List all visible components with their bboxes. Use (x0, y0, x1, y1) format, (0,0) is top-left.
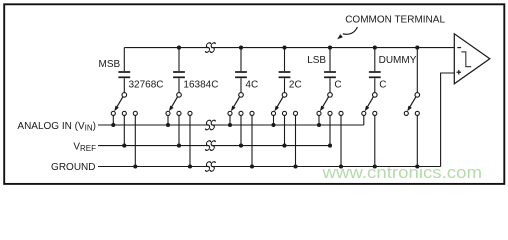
svg-text:ANALOG IN (VIN): ANALOG IN (VIN) (17, 121, 96, 133)
wire: common terminal rail (left segment) (124, 47, 207, 49)
junction: S2 to VREF rail (177, 144, 181, 148)
capacitor C1 (32768C) (118, 48, 130, 93)
switch S5 contact (ANALOG IN throw) (317, 111, 321, 115)
wire: S4 left contact to ANALOG IN (273, 115, 275, 125)
svg-text:C: C (334, 79, 341, 90)
capacitor C6 (DUMMY C) (369, 48, 381, 93)
switch S6 contact (ANALOG IN throw) (362, 111, 366, 115)
switch S5 contact (GROUND throw) (339, 111, 343, 115)
junction: C3 to rail (239, 46, 243, 50)
junction: C4 to rail (282, 46, 286, 50)
svg-text:DUMMY: DUMMY (379, 55, 417, 66)
switch S7 contact (GROUND throw) (415, 111, 419, 115)
wire: GROUND rail (left segment) (98, 166, 207, 168)
op-amp U1 (comparator) (454, 34, 490, 84)
capacitor C3 (4C) (235, 48, 247, 93)
node label: COMMON TERMINAL (337, 14, 445, 39)
switch S2 contact (GROUND throw) (188, 111, 192, 115)
junction: S4 to ANALOG IN rail (271, 123, 275, 127)
wire: common rail down to switch S7 pivot (416, 48, 418, 93)
junction: S5 to ANALOG IN rail (317, 123, 321, 127)
switch S2 wiper (pivot + arrow) (169, 93, 181, 112)
switch S1 contact (GROUND throw) (133, 111, 137, 115)
svg-text:16384C: 16384C (183, 79, 218, 90)
switch S7 wiper (pivot + arrow) (407, 93, 419, 112)
wire: common terminal rail (right segment, to comparator - input) (214, 47, 454, 49)
svg-text:MSB: MSB (99, 59, 121, 70)
svg-text:2C: 2C (289, 79, 302, 90)
wire: VREF rail turn-up to LSB switch middle contact (329, 115, 331, 145)
switch S6 wiper (pivot + arrow) (365, 93, 377, 112)
wire: comparator + input from GROUND rail (441, 73, 455, 167)
wire: S5 left contact to ANALOG IN (318, 115, 320, 125)
junction: S7 to GROUND rail (415, 164, 419, 168)
capacitor C5 (C) (324, 48, 336, 93)
wire: S5 middle contact stub to VREF turn-up (329, 114, 331, 117)
svg-text:C: C (379, 79, 386, 90)
break symbol (ANALOG IN rail) (205, 120, 216, 130)
break symbol (GROUND rail) (205, 162, 216, 172)
wire: S2 middle contact to VREF (178, 115, 180, 145)
junction: C5 to rail (328, 46, 332, 50)
junction: S3 to ANALOG IN rail (228, 123, 232, 127)
wire: S4 right contact to GROUND (295, 115, 297, 166)
break symbol (common terminal rail) (205, 43, 216, 53)
switch S4 contact (GROUND throw) (293, 111, 297, 115)
junction: S2 to GROUND rail (188, 164, 192, 168)
junction: S2 to ANALOG IN rail (166, 123, 170, 127)
switch S3 contact (ANALOG IN throw) (228, 111, 232, 115)
switch S3 contact (VREF throw) (239, 111, 243, 115)
switch S3 contact (GROUND throw) (250, 111, 254, 115)
junction: C2 to rail (177, 46, 181, 50)
switch S4 wiper (pivot + arrow) (274, 93, 286, 112)
junction: C6 to rail (373, 46, 377, 50)
switch S1 contact (ANALOG IN throw) (111, 111, 115, 115)
junction: S1 to VREF rail (122, 144, 126, 148)
wire: GROUND rail (right segment) (214, 166, 441, 168)
wire: S2 right contact to GROUND (189, 115, 191, 166)
wire: S1 right contact to GROUND (134, 115, 136, 166)
wire: S3 right contact to GROUND (251, 115, 253, 166)
junction: S4 to GROUND rail (293, 164, 297, 168)
wire: VREF rail (right segment) (214, 145, 330, 147)
switch S4 contact (VREF throw) (282, 111, 286, 115)
junction: S1 to ANALOG IN rail (111, 123, 115, 127)
junction: S1 to GROUND rail (133, 164, 137, 168)
wire: ANALOG IN rail turn-up to dummy switch left contact (363, 115, 365, 125)
junction: S7 stem to rail (415, 46, 419, 50)
svg-text:COMMON TERMINAL: COMMON TERMINAL (345, 14, 445, 25)
wire: S6 right contact to GROUND (374, 115, 376, 166)
switch S2 contact (VREF throw) (177, 111, 181, 115)
svg-text:GROUND: GROUND (51, 162, 95, 173)
svg-text:LSB: LSB (307, 55, 326, 66)
wire: ANALOG IN rail (left segment) (98, 124, 207, 126)
junction: S5 to GROUND rail (339, 164, 343, 168)
junction: S6 to GROUND rail (373, 164, 377, 168)
junction: S4 to VREF rail (282, 144, 286, 148)
wire: S1 middle contact to VREF (123, 115, 125, 145)
switch S4 contact (ANALOG IN throw) (271, 111, 275, 115)
wire: ANALOG IN rail (right segment) (214, 124, 364, 126)
switch S7 contact (open throw) (404, 111, 408, 115)
capacitor C4 (2C) (279, 48, 291, 93)
switch S1 wiper (pivot + arrow) (114, 93, 126, 112)
svg-text:4C: 4C (245, 79, 258, 90)
switch S1 contact (VREF throw) (122, 111, 126, 115)
switch S5 contact (VREF throw) (328, 111, 332, 115)
wire: S4 middle contact to VREF (284, 115, 286, 145)
junction: S5 to VREF rail (328, 144, 332, 148)
op-amp U1 output step symbol (461, 52, 471, 67)
switch S2 contact (ANALOG IN throw) (166, 111, 170, 115)
junction: S3 to VREF rail (239, 144, 243, 148)
switch S6 contact (GROUND throw) (373, 111, 377, 115)
wire: S2 left contact to ANALOG IN (167, 115, 169, 125)
switch S3 wiper (pivot + arrow) (231, 93, 243, 112)
junction: S3 to GROUND rail (250, 164, 254, 168)
wire: VREF rail (left segment) (98, 145, 207, 147)
break symbol (VREF rail) (205, 141, 216, 151)
wire: S7 right contact to GROUND (416, 115, 418, 166)
wire: S3 left contact to ANALOG IN (229, 115, 231, 125)
wire: S3 middle contact to VREF (240, 115, 242, 145)
switch S5 wiper (pivot + arrow) (320, 93, 332, 112)
capacitor C2 (16384C) (173, 48, 185, 93)
svg-text:32768C: 32768C (129, 79, 164, 90)
wire: S5 right contact to GROUND (340, 115, 342, 166)
wire: S1 left contact to ANALOG IN (112, 115, 114, 125)
